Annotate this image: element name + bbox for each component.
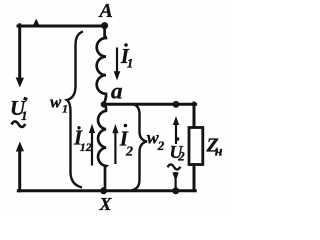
svg-text:A: A <box>98 0 113 22</box>
wire load branch top vertical <box>193 103 196 129</box>
label I12 (phasor dot) <box>73 126 92 154</box>
svg-text:a: a <box>111 79 123 104</box>
current arrow I2 (up) <box>112 124 118 164</box>
label I1 (phasor dot) <box>120 43 134 70</box>
tilde under U1 (AC sign) <box>12 121 26 127</box>
wire bottom (return wire through node X) <box>18 189 195 192</box>
brace w2 (lower winding a-X) <box>132 104 147 190</box>
voltage arrow U2 lower part (points down to bottom wire) <box>172 172 178 190</box>
current arrow I12 (up) <box>89 124 95 166</box>
label U1 (source voltage, phasor dot) <box>10 96 28 123</box>
wire left upper (source terminal down to voltage arrow) <box>18 25 21 78</box>
autotransformer winding upper section A-a <box>97 26 106 105</box>
current arrow I1 (down) <box>114 48 121 81</box>
node A (dot) <box>101 22 108 29</box>
wire top (source to node A) <box>18 25 106 28</box>
node X (dot) <box>100 187 107 194</box>
node a (tap, dot) <box>101 101 107 107</box>
svg-text:2: 2 <box>157 138 165 153</box>
label w1 <box>50 93 68 116</box>
svg-text:1: 1 <box>127 56 134 71</box>
label U2 (phasor dot) <box>170 137 186 163</box>
svg-text:2: 2 <box>177 149 185 164</box>
current direction tick on top wire <box>33 19 40 26</box>
wire tap a to load branch <box>104 103 196 106</box>
wire load branch bottom vertical <box>193 165 196 191</box>
svg-text:12: 12 <box>80 140 92 154</box>
wire left lower (voltage arrow down to bottom corner) <box>18 150 21 191</box>
svg-text:1: 1 <box>21 108 28 123</box>
svg-text:1: 1 <box>62 102 68 116</box>
label w2 <box>147 128 165 154</box>
svg-text:2: 2 <box>125 145 133 160</box>
svg-text:н: н <box>215 145 223 160</box>
load impedance Zн (rectangle) <box>189 128 203 165</box>
tilde under U2 (AC sign) <box>168 164 181 169</box>
voltage arrow U2 upper part (points up to tap wire) <box>173 116 179 144</box>
svg-text:X: X <box>99 194 113 214</box>
label I2 (phasor dot) <box>119 124 133 160</box>
autotransformer winding lower section a-X <box>98 106 106 191</box>
source voltage arrowhead upper (points down into gap) <box>16 77 24 87</box>
source voltage arrowhead lower (points up into gap) <box>16 142 24 152</box>
junction dot (tap wire / U2 top) <box>173 101 180 108</box>
brace w1 (whole winding A-X) <box>67 32 83 188</box>
svg-text:w: w <box>50 93 62 112</box>
junction dot (bottom wire / U2 bottom) <box>172 187 179 194</box>
label Zн <box>206 135 223 160</box>
